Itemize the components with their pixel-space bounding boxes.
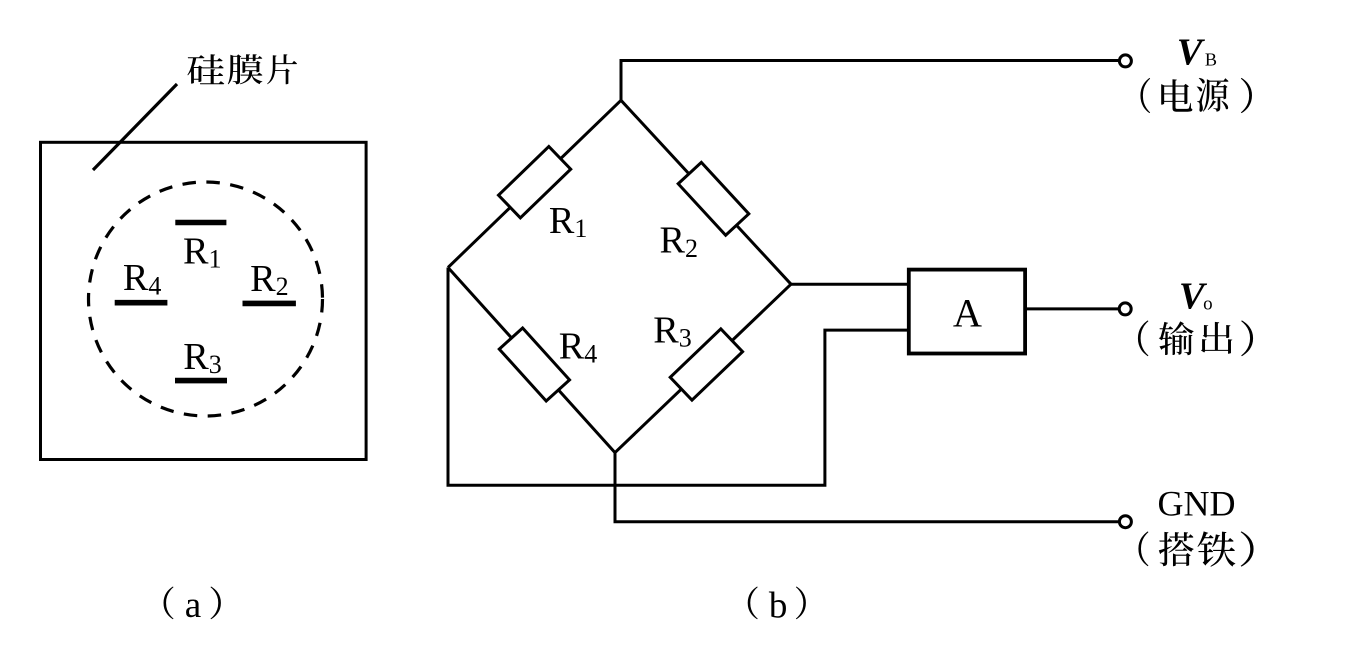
svg-text:GND: GND	[1158, 484, 1236, 524]
svg-text:1: 1	[209, 245, 222, 274]
label R1 (bridge)	[549, 200, 588, 243]
svg-text:R: R	[183, 336, 209, 378]
label R2 (panel a)	[250, 258, 289, 301]
caption (a)	[164, 585, 221, 626]
silicon diaphragm square outline (panel a)	[41, 142, 367, 459]
svg-text:2: 2	[685, 234, 698, 263]
svg-text:R: R	[123, 257, 149, 299]
terminal GND (chassis ground)	[1119, 516, 1131, 528]
terminal Vo (output)	[1119, 303, 1131, 315]
svg-text:R: R	[183, 230, 209, 272]
svg-text:R: R	[559, 325, 585, 367]
label （电源） power source	[1140, 78, 1252, 113]
strain gauge bar R1 (panel a)	[175, 220, 226, 226]
wire: amplifier output to Vo terminal	[1025, 307, 1118, 310]
svg-text:2: 2	[276, 272, 289, 301]
svg-text:3: 3	[679, 324, 692, 353]
leader line to 硅膜片 label	[93, 84, 177, 170]
strain gauge bar R3 (panel a)	[175, 378, 227, 384]
label R4 (bridge)	[559, 325, 598, 368]
dashed circle (diaphragm active area)	[89, 182, 323, 416]
svg-text:b: b	[769, 586, 788, 627]
op-amp A (amplifier box)	[909, 270, 1025, 354]
terminal VB (power)	[1119, 55, 1131, 67]
resistor R4 (bridge)	[499, 328, 569, 401]
caption (b)	[748, 586, 806, 627]
label R3 (bridge)	[653, 309, 692, 352]
label VB	[1177, 32, 1217, 74]
svg-text:B: B	[1205, 49, 1217, 69]
svg-text:V: V	[1177, 32, 1206, 74]
label R3 (panel a)	[183, 336, 222, 379]
strain gauge bar R4 (panel a)	[115, 300, 168, 306]
svg-text:A: A	[953, 291, 982, 336]
svg-text:1: 1	[574, 214, 587, 243]
label 硅膜片 (silicon diaphragm)	[187, 54, 297, 84]
label R4 (panel a)	[123, 257, 161, 300]
strain gauge bar R2 (panel a)	[243, 301, 296, 307]
svg-text:4: 4	[584, 340, 597, 369]
wire: bridge edge bottom-right	[615, 284, 791, 452]
label Vo	[1179, 276, 1213, 318]
svg-text:R: R	[653, 309, 679, 351]
svg-text:R: R	[250, 258, 276, 300]
label R1 (panel a)	[183, 230, 222, 273]
svg-text:R: R	[549, 200, 575, 242]
resistor R1 (bridge)	[498, 147, 570, 218]
svg-text:R: R	[660, 220, 686, 262]
label （输出） output	[1138, 320, 1253, 356]
wire: right bridge node to amplifier upper input	[791, 283, 909, 286]
svg-text:o: o	[1203, 293, 1213, 314]
svg-text:3: 3	[209, 350, 222, 379]
wire: left bridge node down, across, and up to amplifier lower input	[448, 268, 909, 486]
svg-text:4: 4	[148, 271, 161, 300]
wire: bridge edge bottom-left	[448, 268, 615, 453]
svg-text:a: a	[185, 585, 201, 626]
label （搭铁） chassis ground	[1138, 531, 1253, 566]
wire: bridge edge top-right	[621, 100, 791, 284]
label GND	[1158, 484, 1236, 524]
resistor R2 (bridge)	[678, 162, 749, 235]
label R2 (bridge)	[660, 220, 699, 263]
wire: bottom bridge node down then right to GND terminal	[615, 453, 1118, 522]
wire: bridge edge top-left (node VB side to left node)	[448, 100, 621, 267]
wire: bridge top node up and right to VB terminal	[621, 61, 1119, 101]
resistor R3 (bridge)	[670, 329, 742, 400]
